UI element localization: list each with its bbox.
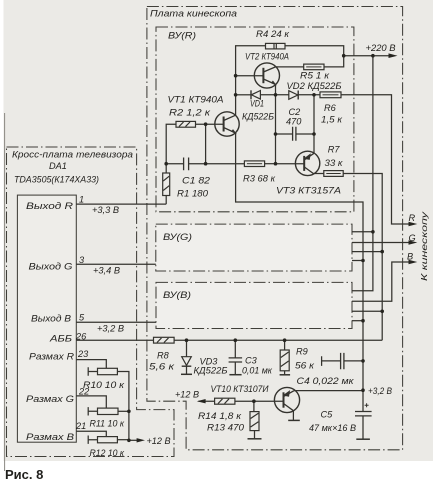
svg-text:VT2 КТ940А: VT2 КТ940А (245, 52, 289, 62)
svg-text:R5 1 к: R5 1 к (300, 71, 330, 81)
svg-text:R: R (409, 213, 416, 223)
node VT1 base / C1 (204, 122, 208, 126)
wire +12V left arrow feed to R14 (199, 400, 215, 402)
wire VT2 base (236, 75, 264, 77)
svg-text:VT10 КТ3107И: VT10 КТ3107И (211, 384, 269, 394)
wire R6 out to R kinescope arrow (341, 95, 410, 224)
svg-text:КД522Б: КД522Б (242, 112, 274, 122)
resistor R14 1,8к hatched (215, 398, 235, 404)
wire VT2 collector to R5 (276, 66, 304, 68)
wire input node to C1 (166, 163, 183, 165)
capacitor C5 47мк electrolytic (355, 412, 372, 416)
wire ABB rail from R8 (174, 339, 382, 341)
svg-text:+3,2 В: +3,2 В (368, 386, 392, 396)
svg-text:47 мк×16 В: 47 мк×16 В (309, 423, 356, 433)
node +220 to ВУ(G) (371, 230, 375, 234)
wire diode line left segment (236, 94, 252, 96)
transistor VT2 КТ940А (254, 63, 279, 88)
wire VD1 anode to VT2 emitter node (260, 94, 288, 96)
svg-text:Выход R: Выход R (26, 201, 73, 211)
node +220 rail junction (371, 54, 375, 58)
svg-text:5: 5 (79, 313, 85, 323)
node VD2-R6 junction (312, 93, 316, 97)
svg-text:33 к: 33 к (325, 158, 344, 168)
svg-text:5,6 к: 5,6 к (149, 362, 175, 372)
wire pin5 output B to ВУ(B) (76, 321, 156, 323)
node R11 to +12 vertical (127, 410, 131, 414)
svg-text:ВУ(R): ВУ(R) (168, 31, 196, 41)
svg-text:R12 10 к: R12 10 к (90, 448, 125, 458)
svg-text:R2 1,2 к: R2 1,2 к (169, 108, 211, 118)
svg-text:G: G (409, 233, 416, 243)
diode VD1 КД522Б (251, 91, 260, 100)
node VT2 emitter / VD junction (274, 93, 278, 97)
wire ВУ(B) stub to R7 net (352, 310, 382, 312)
arrow +12В to cross-board (left) (197, 399, 206, 403)
svg-text:R7: R7 (328, 145, 341, 155)
node VD1 cathode rail (234, 93, 238, 97)
svg-text:Выход В: Выход В (31, 314, 71, 324)
wire pin23 to R10 wiper (76, 360, 106, 369)
arrow +220В (389, 53, 398, 58)
svg-text:22: 22 (78, 387, 89, 397)
svg-text:C2: C2 (289, 107, 301, 117)
wire R12 left end bar (88, 436, 97, 444)
wire R11 right stub (118, 410, 129, 412)
wire R1 stubs (165, 164, 167, 204)
node C2 left (274, 132, 278, 136)
node R7 net ВУ(G) (380, 250, 384, 254)
svg-text:1,5 к: 1,5 к (321, 115, 343, 125)
wire C1 to R3 node (189, 163, 245, 165)
ground bar at VT10 collector (288, 419, 300, 421)
node input R1/R2/C1 (164, 162, 168, 166)
node +3,2V / C5 / VT10 emitter (361, 388, 365, 392)
wire VT2 emitter down (275, 84, 277, 95)
wire R14 to VT10 base (235, 400, 284, 402)
wire +220 vertical rail down to ВУ(B) (352, 56, 373, 291)
svg-text:56 к: 56 к (295, 361, 315, 371)
svg-text:+3,2 В: +3,2 В (97, 324, 124, 334)
amplifier block box ВУ(G) dash-dot (156, 224, 352, 271)
svg-text:R14 1,8 к: R14 1,8 к (198, 411, 242, 421)
cross-board outline: Кросс-плата телевизора dash-dot border (7, 147, 175, 457)
node R7 net ВУ(B) (380, 310, 384, 314)
wire ВУ(B) output zigzag to B arrow (352, 262, 410, 301)
amplifier block box ВУ(B) dash-dot (156, 282, 352, 328)
wire R10 right to common +12 vertical (117, 372, 128, 441)
arrow R output (409, 222, 418, 226)
svg-text:Размах R: Размах R (29, 352, 74, 362)
wire ВУ(G) output to G arrow (352, 242, 410, 244)
wire pin22 to R11 wiper (76, 396, 106, 408)
svg-text:АББ: АББ (49, 334, 72, 344)
wire pin1 +3,3В from DA1 to R1 (76, 203, 166, 205)
wire ВУ(B) stub to +3,2 rail (352, 320, 363, 322)
svg-text:23: 23 (77, 349, 89, 359)
node C1 right (204, 162, 208, 166)
svg-text:Кросс-плата телевизора: Кросс-плата телевизора (12, 150, 133, 160)
svg-text:C3: C3 (245, 356, 258, 366)
svg-text:Плата кинескопа: Плата кинескопа (150, 9, 237, 19)
resistor R9 56к hatched vertical (280, 350, 289, 371)
svg-text:R6: R6 (324, 103, 337, 113)
svg-text:3: 3 (79, 255, 85, 265)
wire ВУ(G) +220 stub (352, 231, 373, 233)
svg-text:B: B (407, 252, 413, 262)
capacitor C3 0,01мк (229, 358, 243, 362)
board outline: Плата кинескопа dash-dot border (147, 7, 403, 450)
wire VD3 cathode to ground (186, 366, 188, 374)
svg-text:26: 26 (75, 331, 87, 341)
node C4 on +3,2 rail (361, 359, 365, 363)
wire VD2/R6 node down to VT3 collector (313, 95, 315, 153)
wire R9 stubs (284, 340, 286, 374)
node R3/VT3 base (274, 162, 278, 166)
wire R12 right stub (117, 439, 128, 441)
resistor R13 470 hatched vertical (250, 412, 259, 431)
wire +220 feed line (344, 55, 390, 57)
node C2 right (312, 132, 316, 136)
svg-text:ВУ(G): ВУ(G) (163, 232, 192, 242)
resistor R2 1,2к hatched (176, 121, 196, 127)
svg-text:Размах G: Размах G (26, 394, 74, 404)
arrow G output (409, 240, 418, 244)
svg-text:C4 0,022 мк: C4 0,022 мк (297, 376, 355, 386)
svg-text:R4 24 к: R4 24 к (256, 29, 290, 39)
wire R13 stubs (253, 401, 256, 438)
svg-text:470: 470 (286, 117, 302, 127)
wire VT1 emitter to +3,2V rail (236, 133, 363, 390)
svg-text:+3,4 В: +3,4 В (93, 266, 120, 276)
wire VT2 emitter node down to VT3 base node (275, 95, 277, 164)
capacitor C1 82 (184, 158, 189, 171)
svg-text:+220 В: +220 В (366, 43, 396, 53)
wire VD3 stub (186, 340, 188, 357)
svg-text:+3,3 В: +3,3 В (92, 205, 119, 215)
capacitor C2 470 (293, 127, 296, 141)
svg-text:VT3 КТ3157А: VT3 КТ3157А (276, 186, 341, 196)
resistor R6 1,5к (320, 92, 341, 98)
svg-text:TDA3505(К174ХА33): TDA3505(К174ХА33) (14, 175, 99, 185)
ground bar at VD3 (181, 373, 192, 375)
node C3 on ABB rail (234, 338, 238, 342)
wire R7 out down to ABB rail (343, 174, 382, 341)
svg-text:1: 1 (79, 195, 84, 205)
node +220 R4/R5 junction (342, 54, 346, 58)
svg-text:R9: R9 (296, 347, 308, 357)
svg-text:R10 10 к: R10 10 к (83, 380, 125, 390)
transistor VT1 КТ940А (215, 112, 239, 136)
capacitor C4 0,022мк (341, 353, 344, 369)
wire C5 leads (362, 390, 364, 438)
wire C4 right lead to +3,2 rail (344, 360, 363, 362)
resistor R7 33к (324, 171, 343, 177)
svg-text:VT1 КТ940А: VT1 КТ940А (168, 95, 224, 105)
svg-text:Размах В: Размах В (26, 432, 74, 442)
svg-text:Рис. 8: Рис. 8 (5, 467, 43, 482)
node R13/R14/VT10 base (252, 399, 256, 403)
svg-text:R11 10 к: R11 10 к (90, 419, 125, 429)
wire R11 left end bar (88, 407, 97, 415)
wire R10 left end bar (88, 367, 97, 375)
wire C4 left lead with end bar (322, 356, 341, 366)
svg-text:DA1: DA1 (49, 161, 67, 171)
svg-text:R3 68 к: R3 68 к (243, 174, 276, 184)
wire +12V output arrow wire (129, 439, 137, 441)
wire C2 right lead to VD2-R6 net (296, 133, 314, 135)
wire R3 right to VT3 base node (265, 163, 276, 165)
svg-text:C5: C5 (321, 410, 334, 420)
resistor R11 10к (98, 408, 119, 414)
svg-text:R8: R8 (157, 351, 170, 361)
ground bar at R9 (280, 374, 291, 376)
svg-text:Выход G: Выход G (29, 262, 73, 272)
transistor VT3 КТ3157А (295, 151, 319, 175)
resistor R4 24к (266, 43, 286, 49)
wire VD2 cathode to R6 (299, 94, 321, 96)
diode VD2 КД522Б (289, 91, 298, 100)
arrow +12В output (right) (137, 438, 145, 442)
ground bar at C3 (229, 374, 241, 376)
wire ВУ(G) stub to R7 net (352, 251, 382, 253)
wire R2 left down to input node (166, 124, 176, 164)
wire C2 left lead (276, 133, 293, 135)
svg-text:R1 180: R1 180 (177, 189, 209, 199)
wire VT10 collector to ground (292, 411, 294, 420)
svg-text:C1 82: C1 82 (182, 176, 210, 186)
svg-text:+12 В: +12 В (175, 390, 199, 400)
resistor R1 180 hatched vertical (163, 173, 170, 196)
wire C1 node up to VT1 base (205, 124, 207, 164)
IC DA1 TDA3505 box (17, 195, 76, 442)
wire pin3 output G to ВУ(G) (76, 263, 156, 265)
ground bar at R13 (248, 438, 262, 440)
node +3,2 rail ВУ(G) (361, 259, 365, 263)
resistor R8 5,6к hatched (154, 337, 175, 343)
svg-text:0,01 мк: 0,01 мк (242, 366, 273, 376)
transistor VT10 КТ3107И (274, 387, 299, 412)
svg-text:К кинескопу: К кинескопу (419, 211, 429, 281)
wire VT10 emitter to +3,2 node (294, 390, 363, 392)
node +3,2 rail ВУ(B) (361, 319, 365, 323)
resistor R3 68к (244, 161, 264, 167)
svg-text:VD1: VD1 (250, 99, 264, 109)
arrow B output (409, 260, 418, 264)
diode VD3 КД522Б (182, 357, 192, 366)
svg-text:VD2 КД522Б: VD2 КД522Б (287, 81, 342, 91)
wire VT3 emitter down-right to R7 (314, 173, 324, 175)
wire VT3 base (276, 163, 305, 165)
amplifier block box ВУ(R) dash-dot (156, 27, 354, 212)
svg-text:ВУ(B): ВУ(B) (163, 290, 191, 300)
svg-text:R13 470: R13 470 (207, 423, 245, 433)
resistor R5 1к (304, 64, 324, 70)
node R12 to +12 vertical (127, 439, 131, 443)
svg-text:+12 В: +12 В (147, 436, 171, 446)
wire VT1 base (196, 123, 225, 125)
resistor R12 10к (98, 437, 118, 443)
svg-text:КД522Б: КД522Б (194, 366, 228, 376)
ground bar at C5 (356, 438, 370, 440)
plus mark for C5 (365, 403, 369, 407)
wire pin26 ABB from DA1 to R8 (76, 339, 153, 341)
resistor R10 10к (98, 368, 118, 374)
node VD3 on ABB rail (185, 338, 189, 342)
wire R4 left to VT1 collector rail (236, 46, 266, 115)
node VT2 base (234, 74, 238, 78)
wire R4 right to +220 node down to R5 right (285, 46, 344, 67)
svg-text:21: 21 (75, 421, 86, 431)
wire pin21 to R12 wiper (76, 431, 106, 436)
wire ВУ(G) stub to +3,2 rail (352, 260, 363, 262)
scan page edge line (4, 113, 6, 471)
wire C3 stubs (234, 340, 236, 374)
node R9 on ABB rail (283, 338, 287, 342)
